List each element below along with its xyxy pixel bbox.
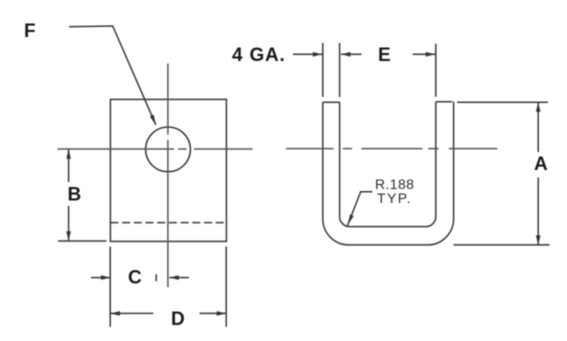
right view outer profile <box>323 102 454 245</box>
dim D line left <box>110 312 153 314</box>
dim D line right <box>200 312 227 314</box>
dim B line lower <box>68 206 70 241</box>
svg-text:4 GA.: 4 GA. <box>232 45 286 66</box>
horizontal centerline left segment <box>58 148 175 150</box>
leader F polyline <box>69 26 156 125</box>
right wall top edge <box>436 101 453 103</box>
svg-text:F: F <box>24 21 36 42</box>
dim D extension line right <box>225 247 227 327</box>
svg-text:A: A <box>534 154 549 175</box>
leader F arrowhead <box>150 115 156 126</box>
hole circle <box>146 127 191 172</box>
radius leader arrowhead <box>348 215 354 226</box>
hidden bend line (dashed) <box>110 222 226 224</box>
vertical centerline lower segment <box>167 140 169 287</box>
dim A line upper <box>537 102 539 152</box>
left view plate outline <box>110 99 226 241</box>
radius leader <box>348 192 373 226</box>
dim A line lower <box>537 178 539 245</box>
dim B line upper <box>68 149 70 182</box>
vertical centerline upper segment <box>167 64 169 135</box>
dim B arrow down <box>66 231 71 241</box>
right view inner profile <box>340 102 436 227</box>
svg-text:TYP.: TYP. <box>377 190 412 206</box>
dim C stub tick <box>155 274 157 281</box>
svg-text:E: E <box>378 45 391 66</box>
right view centerline segments <box>286 148 334 150</box>
dim A arrow up <box>536 102 541 112</box>
thickness extension line inner <box>339 43 341 97</box>
svg-text:D: D <box>171 309 186 330</box>
svg-text:C: C <box>128 268 143 289</box>
dim E extension line right <box>435 44 437 97</box>
thickness extension line outer <box>322 43 324 97</box>
left wall top edge <box>323 101 340 103</box>
dim B arrow up <box>66 149 71 159</box>
dim A arrow down <box>536 235 541 245</box>
4 GA. arrow <box>293 53 322 55</box>
svg-text:B: B <box>68 185 83 206</box>
horizontal centerline short dash <box>178 148 187 150</box>
dim A bottom extension <box>454 244 550 246</box>
dim C right arrow <box>169 277 189 279</box>
dim E left arrow <box>341 53 362 55</box>
dim A top extension <box>457 101 548 103</box>
horizontal centerline right segment <box>194 148 253 150</box>
dim C left arrow <box>91 277 110 279</box>
dim B extension line bottom <box>58 240 107 242</box>
dim E right arrow <box>413 53 436 55</box>
dim D extension line left <box>109 247 111 327</box>
